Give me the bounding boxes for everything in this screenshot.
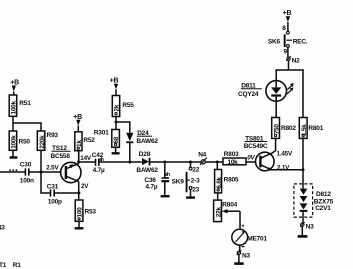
svg-text:22: 22 (192, 167, 199, 174)
wire wiper to meter (239, 211, 241, 229)
wire base junction down to C31 (41, 172, 50, 193)
svg-text:750: 750 (273, 124, 280, 135)
node N3 (zener) (300, 222, 314, 231)
resistor R803 (223, 151, 246, 166)
svg-text:2-3: 2-3 (191, 178, 200, 185)
ground under zeners (298, 226, 308, 236)
wire R52 to emitter node (77, 151, 79, 162)
svg-text:+: + (241, 224, 245, 230)
diode D28 (136, 151, 158, 174)
wire R93 to base junction (40, 150, 42, 172)
svg-text:8: 8 (282, 25, 286, 32)
transistor TS12 (46, 145, 81, 183)
switch contact N4 (198, 151, 207, 165)
svg-text:100p: 100p (48, 198, 62, 205)
node emitter/R801 (302, 168, 305, 171)
capacitor C31 (47, 183, 62, 205)
wire emitter up (78, 151, 80, 164)
power +B top right (283, 10, 292, 31)
node C36 (163, 161, 166, 164)
svg-text:N2: N2 (292, 57, 300, 64)
svg-text:R51: R51 (19, 100, 31, 107)
svg-text:23: 23 (192, 187, 199, 194)
svg-text:+B: +B (110, 78, 119, 85)
svg-text:BAW62: BAW62 (136, 138, 158, 145)
wire R55 to junction (115, 117, 117, 130)
svg-text:R50: R50 (19, 139, 31, 146)
svg-text:D28: D28 (139, 151, 151, 158)
svg-text:R805: R805 (224, 177, 239, 184)
svg-text:R52: R52 (83, 137, 95, 144)
svg-text:+B: +B (10, 79, 19, 86)
svg-text:SK6: SK6 (268, 38, 281, 45)
svg-text:N4: N4 (198, 151, 206, 158)
node R55/D24 (115, 121, 118, 124)
svg-text:14V: 14V (80, 155, 92, 162)
wire N2 branch (276, 70, 303, 118)
wire node to C42 (79, 161, 95, 163)
capacitor C36 (144, 162, 170, 196)
trimmer R804 (214, 200, 240, 222)
svg-text:100k: 100k (11, 135, 18, 149)
wire N2 down to branch (288, 60, 290, 70)
power +B for R55 (110, 78, 119, 96)
svg-text:1.5k: 1.5k (301, 124, 308, 136)
capacitor C30 (20, 162, 34, 185)
wire N4 to R803 (205, 161, 223, 163)
switch SK6 (268, 25, 308, 55)
wire collector down (78, 181, 80, 200)
svg-text:R301: R301 (94, 130, 109, 137)
switch SK9 (172, 162, 201, 198)
svg-text:10k: 10k (228, 159, 239, 166)
svg-text:R802: R802 (281, 125, 296, 132)
svg-text:C2V1: C2V1 (315, 205, 331, 212)
svg-text:REC.: REC. (293, 38, 308, 45)
svg-text:BC549C: BC549C (244, 143, 268, 150)
svg-text:R1: R1 (13, 262, 21, 269)
svg-text:R53: R53 (85, 209, 97, 216)
svg-text:+B: +B (283, 10, 292, 17)
svg-text:CQY24: CQY24 (238, 91, 259, 98)
svg-text:R93: R93 (47, 132, 59, 139)
ground under meter (234, 255, 243, 264)
svg-text:BAW62: BAW62 (136, 167, 158, 174)
svg-text:68: 68 (113, 136, 120, 143)
resistor R801 (299, 118, 323, 139)
wire LED to R802 (275, 101, 277, 117)
svg-text:2k: 2k (114, 104, 121, 111)
svg-text:BC558: BC558 (51, 153, 71, 160)
svg-text:R801: R801 (308, 125, 323, 132)
LED D811 (238, 81, 294, 102)
svg-text:T1: T1 (0, 262, 7, 269)
resistor R301 (94, 130, 120, 148)
capacitor C42 (92, 152, 105, 174)
diode D24 (126, 130, 158, 162)
svg-text:R803: R803 (224, 151, 239, 158)
wire D28 to C36 node (150, 161, 201, 163)
node collector junction (77, 192, 80, 195)
svg-text:SK9: SK9 (172, 178, 185, 185)
svg-text:9: 9 (284, 48, 288, 55)
wire junction to R93 (13, 123, 41, 131)
wire R51 to R50 (12, 116, 14, 131)
resistor R802 (272, 118, 297, 139)
svg-text:N3: N3 (242, 252, 250, 259)
resistor R805 (215, 170, 239, 193)
svg-text:22k: 22k (215, 207, 222, 218)
resistor R52 (75, 132, 96, 151)
wire C42 to D24 junction (99, 161, 141, 163)
resistor R51 (9, 95, 31, 116)
svg-text:2V: 2V (81, 183, 89, 190)
node SK9 (189, 161, 192, 164)
resistor R50 (9, 131, 30, 150)
wire C31 to collector (55, 192, 79, 194)
power +B mid (73, 114, 82, 132)
ground under R301 (112, 147, 120, 153)
svg-text:N3: N3 (306, 224, 314, 231)
svg-text:4.7µ: 4.7µ (93, 167, 105, 174)
ground under R50 (10, 150, 18, 157)
svg-text:R804: R804 (222, 202, 237, 209)
wire C30 to base (30, 171, 61, 173)
resistor R93 (37, 131, 58, 150)
svg-text:6.8k: 6.8k (216, 176, 223, 188)
svg-text:1k: 1k (76, 140, 83, 147)
svg-text:1.45V: 1.45V (277, 151, 293, 158)
wire junction to D24 (116, 122, 130, 133)
svg-text:D812: D812 (316, 191, 331, 198)
svg-text:100k: 100k (11, 101, 18, 115)
svg-text:ME701: ME701 (247, 236, 267, 243)
node N2 (286, 56, 300, 64)
wire R805 stem (216, 162, 218, 170)
svg-text:2.5V: 2.5V (46, 165, 59, 172)
svg-text:N3: N3 (0, 224, 5, 231)
node D24/bus (128, 161, 131, 164)
svg-text:C30: C30 (20, 162, 32, 169)
wire emitter to R801 column (272, 169, 304, 171)
wire R801 to emitter node (302, 138, 304, 169)
wire R805 to R804 (217, 193, 219, 200)
node R805 branch (216, 161, 219, 164)
svg-text:4.7µ: 4.7µ (145, 184, 157, 191)
ground under R53 (75, 221, 84, 228)
resistor R53 (75, 200, 96, 221)
node base junction (40, 171, 43, 174)
svg-text:0V: 0V (247, 154, 255, 161)
svg-text:100: 100 (77, 207, 84, 218)
wire SK6 to N2 (287, 47, 289, 57)
power +B left (10, 79, 19, 95)
node emitter/C42 (77, 161, 80, 164)
transistor TS801 (244, 135, 274, 171)
svg-text:100n: 100n (20, 178, 34, 185)
svg-text:220k: 220k (39, 135, 46, 149)
wire emitter node down to zeners (302, 170, 304, 189)
resistor R55 (112, 96, 134, 117)
wire meter to N3 (239, 245, 241, 251)
wire collector to R802 (272, 138, 276, 153)
svg-text:C31: C31 (47, 183, 59, 190)
svg-text:R55: R55 (122, 102, 134, 109)
node N3 (meter) (237, 250, 251, 259)
continuation dots (9, 169, 17, 171)
wire input line left (0, 171, 25, 173)
zener D812 (294, 184, 334, 223)
wire R803 to base TS801 (246, 161, 256, 163)
meter ME701 (232, 224, 268, 247)
